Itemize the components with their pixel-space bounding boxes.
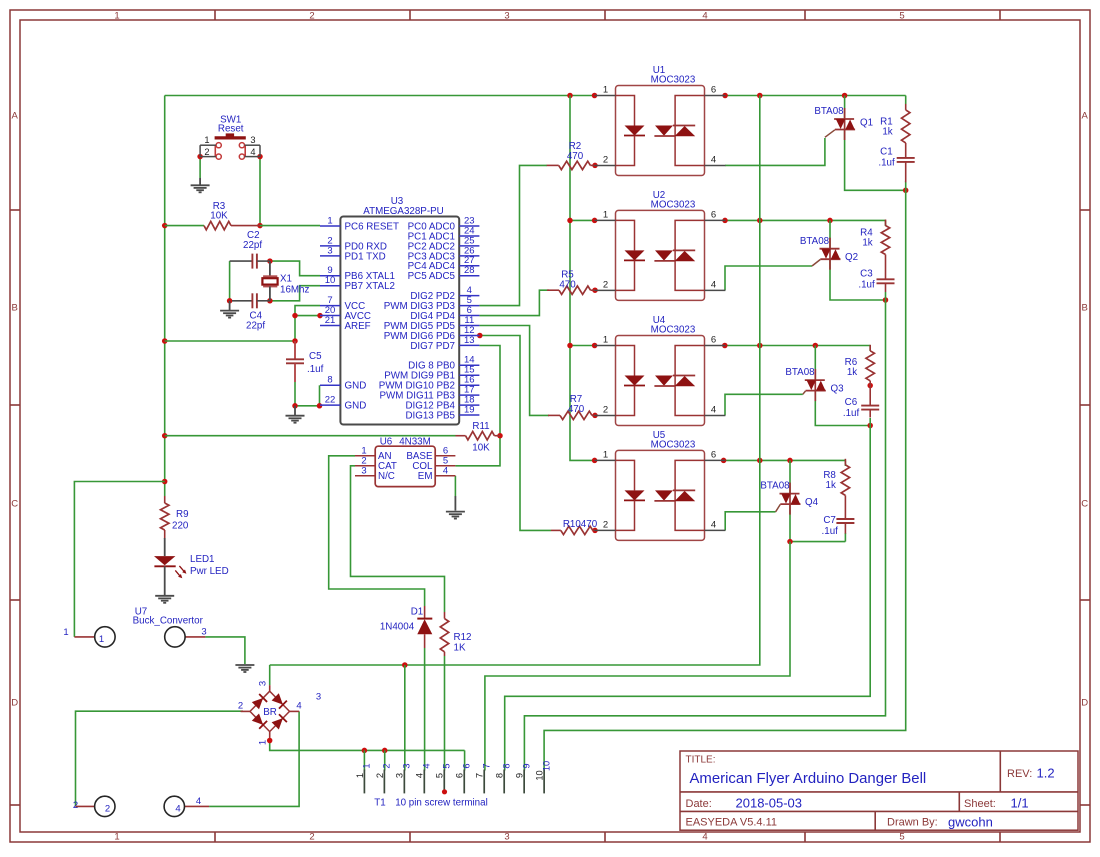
wire R12 to terminal 5 [444,656,446,771]
svg-text:16Mhz: 16Mhz [280,285,310,296]
svg-text:1k: 1k [847,367,857,378]
svg-text:1: 1 [114,11,119,22]
svg-text:1: 1 [603,449,608,460]
svg-text:3: 3 [361,465,366,476]
capacitor C7 .1uf [822,495,855,537]
svg-text:1k: 1k [826,480,836,491]
capacitor C5 .1uf [286,341,324,382]
resistor R4 1k [860,220,890,255]
svg-text:Reset: Reset [218,124,244,135]
wire R6C6 column [869,346,871,352]
svg-text:470: 470 [567,151,584,162]
svg-text:MOC3023: MOC3023 [651,200,696,211]
wire hot output 2 to terminal 9 [524,300,885,771]
wire opto anode bus [570,96,595,461]
svg-text:1/1: 1/1 [1011,795,1029,810]
svg-text:4: 4 [443,465,448,476]
wire U6 CAT to R12 [351,466,445,612]
svg-text:2: 2 [309,11,314,22]
svg-text:5: 5 [441,763,451,768]
wire hot output 1 to terminal 10 [544,190,906,770]
svg-text:3: 3 [327,245,332,256]
wire Q3 main path [814,346,816,381]
svg-text:2: 2 [204,147,209,157]
svg-text:6: 6 [461,763,471,768]
optocoupler U1 MOC3023 [595,65,726,175]
svg-text:3: 3 [201,627,206,638]
svg-text:2: 2 [382,763,392,768]
svg-text:1k: 1k [882,127,892,138]
svg-text:3: 3 [258,681,269,686]
resistor R10 470 [551,519,598,535]
svg-text:9: 9 [521,763,531,768]
svg-text:B: B [1082,303,1088,314]
svg-text:5: 5 [435,773,445,778]
svg-text:4: 4 [711,155,716,166]
svg-text:U6: U6 [380,436,393,447]
svg-text:2: 2 [238,701,243,712]
svg-text:PC6 RESET: PC6 RESET [345,221,399,232]
svg-text:4: 4 [175,804,180,815]
wire U4 pin6 rail [725,345,870,347]
svg-text:ATMEGA328P-PU: ATMEGA328P-PU [363,206,443,217]
wire U2 pin6 rail [725,219,886,221]
svg-text:4: 4 [702,11,707,22]
svg-text:13: 13 [464,335,475,346]
ground under C5 [286,406,305,423]
svg-text:1: 1 [603,85,608,96]
svg-text:2: 2 [603,405,608,416]
svg-text:3: 3 [316,692,321,703]
optocoupler U2 MOC3023 [595,190,726,300]
svg-text:LED1: LED1 [190,554,215,565]
wire XTAL2 net [270,286,320,301]
svg-text:220: 220 [172,521,189,532]
svg-text:22: 22 [325,395,336,406]
LED LED1 Pwr LED [154,538,229,596]
svg-text:10 pin screw terminal: 10 pin screw terminal [395,797,488,808]
svg-text:3: 3 [395,773,405,778]
ground under U7 pin3 [235,665,254,672]
svg-text:1: 1 [603,335,608,346]
optocoupler U4 MOC3023 [595,315,726,425]
wire bus to R11 [165,435,456,437]
triac Q2 BTA08 [800,236,858,270]
svg-text:5: 5 [899,832,904,843]
svg-text:2: 2 [309,832,314,843]
svg-text:21: 21 [325,315,336,326]
svg-text:D: D [11,698,18,709]
ground under LED1 [155,596,174,603]
wire U5 pin6 rail [724,459,846,461]
svg-text:American Flyer Arduino Danger: American Flyer Arduino Danger Bell [690,771,927,787]
wire DIG3 to R2 [479,165,547,305]
wire hot output 4 to terminal 7 [485,542,790,771]
wire U7 pin2 to bridge [76,711,244,806]
resistor R5 470 [547,270,595,295]
svg-text:10: 10 [325,275,336,286]
svg-text:6: 6 [455,773,465,778]
svg-text:.1uf: .1uf [843,408,860,419]
diode D1 1N4004 [380,606,432,648]
svg-text:1N4004: 1N4004 [380,622,415,633]
svg-text:C: C [11,499,18,510]
svg-text:3: 3 [504,832,509,843]
svg-text:BTA08: BTA08 [760,481,790,492]
svg-text:4: 4 [250,147,255,157]
wire R4C3 column [885,220,887,226]
svg-text:TITLE:: TITLE: [686,754,716,765]
svg-text:3: 3 [250,135,255,145]
svg-text:1: 1 [603,209,608,220]
wire R3 to U3 pin1 [260,225,320,227]
svg-text:2: 2 [603,279,608,290]
svg-text:DIG7 PD7: DIG7 PD7 [410,341,455,352]
wire left bus [164,96,166,497]
svg-text:10K: 10K [210,211,228,222]
wire C5 to GND pins [294,382,296,406]
svg-text:2: 2 [603,155,608,166]
resistor R12 1K [440,612,471,656]
svg-text:1: 1 [114,832,119,843]
svg-text:BTA08: BTA08 [785,367,815,378]
resistor R8 1k [823,459,849,496]
svg-text:DIG13 PB5: DIG13 PB5 [405,410,455,421]
svg-text:.1uf: .1uf [822,526,839,537]
capacitor C6 .1uf [843,381,879,419]
wire R8C7 column [844,460,846,466]
ground under C4 [220,301,239,318]
wire R1C1 column [905,96,907,105]
svg-text:6: 6 [711,335,716,346]
svg-text:EASYEDA V5.4.11: EASYEDA V5.4.11 [686,816,778,828]
svg-text:BTA08: BTA08 [814,106,844,117]
svg-text:GND: GND [345,381,367,392]
svg-text:N/C: N/C [378,471,395,482]
svg-text:7: 7 [475,773,485,778]
capacitor C2 22pf [230,230,270,269]
svg-text:MOC3023: MOC3023 [651,75,696,86]
svg-text:2: 2 [73,800,78,811]
terminal T1 10 pin screw terminal [355,761,552,809]
svg-text:A: A [12,111,19,122]
svg-text:8: 8 [495,773,505,778]
ground under SW1 [191,178,210,192]
wire DIG5 to R7 [479,326,549,416]
svg-text:PD1 TXD: PD1 TXD [345,251,386,262]
svg-text:1: 1 [99,634,104,645]
svg-text:R10470: R10470 [563,519,598,530]
wire U7 pin3 ground leg [205,637,245,664]
wire U6 AN to D1 [329,456,425,606]
svg-text:Q2: Q2 [845,252,858,263]
svg-text:1: 1 [204,135,209,145]
svg-text:7: 7 [481,763,491,768]
resistor R11 10K [456,421,501,454]
svg-text:5: 5 [899,11,904,22]
connector U7 Buck_Convertor [63,606,209,816]
wire U4 pin4 to Q3 gate [725,394,803,415]
wire U6 EM ground leg [454,476,456,496]
svg-text:T1: T1 [374,797,385,808]
svg-text:C3: C3 [860,268,873,279]
svg-text:Pwr LED: Pwr LED [190,566,229,577]
svg-text:8: 8 [327,375,332,386]
optocoupler U6 4N33M [355,436,455,486]
svg-text:R12: R12 [454,632,472,643]
svg-text:AREF: AREF [345,321,371,332]
wire U5 pin4 to Q4 gate [725,512,775,531]
svg-text:2018-05-03: 2018-05-03 [736,795,803,810]
svg-text:Q3: Q3 [830,383,844,394]
svg-text:PC5 ADC5: PC5 ADC5 [408,271,456,282]
svg-text:1: 1 [355,773,365,778]
wire SW1 ground leg [199,157,201,178]
capacitor C4 22pf [232,293,270,331]
wire U7 pin1 to bus [74,482,164,637]
svg-text:9: 9 [515,773,525,778]
svg-text:4: 4 [711,405,716,416]
svg-text:D: D [1081,698,1088,709]
svg-text:8: 8 [501,763,511,768]
wire U7 pin4 to bridge [209,711,299,806]
svg-text:Q4: Q4 [805,497,819,508]
svg-text:1K: 1K [454,643,466,654]
wire bridge pin3 up [269,665,271,685]
wire DIG7-R11-COL net [455,346,500,466]
wire XTAL1 net [270,261,320,276]
svg-text:C1: C1 [880,147,893,158]
svg-text:X1: X1 [280,274,292,285]
svg-text:1: 1 [362,763,372,768]
svg-text:2: 2 [603,519,608,530]
microcontroller U3 ATMEGA328P-PU [320,196,479,425]
svg-text:1: 1 [63,627,68,638]
bridge rectifier BR [238,681,302,745]
capacitor C1 .1uf [878,143,914,182]
wire AC line to bridge [270,96,760,666]
svg-text:470: 470 [559,280,576,291]
svg-text:4: 4 [296,701,301,712]
svg-text:R9: R9 [176,509,189,520]
svg-text:C5: C5 [309,351,322,362]
svg-text:470: 470 [568,404,585,415]
svg-text:.1uf: .1uf [858,279,875,290]
svg-text:6: 6 [711,209,716,220]
triac Q1 BTA08 [814,106,873,140]
svg-text:BR: BR [263,707,277,718]
svg-text:Drawn By:: Drawn By: [887,816,938,828]
svg-text:C6: C6 [845,397,858,408]
svg-text:4: 4 [422,763,432,768]
svg-text:REV:: REV: [1007,768,1032,780]
wire terminal 3 tap [404,665,406,771]
svg-text:A: A [1082,111,1089,122]
resistor R1 1k [880,104,910,143]
svg-text:Date:: Date: [686,798,712,810]
svg-text:gwcohn: gwcohn [948,814,993,829]
svg-text:1k: 1k [862,238,872,249]
svg-text:4N33M: 4N33M [399,436,431,447]
svg-text:PB7 XTAL2: PB7 XTAL2 [345,281,395,292]
svg-text:10K: 10K [472,443,490,454]
svg-text:D1: D1 [411,607,424,618]
optocoupler U5 MOC3023 [595,430,726,540]
svg-text:EM: EM [418,471,433,482]
wire Q4 main path [789,460,791,493]
svg-text:MOC3023: MOC3023 [651,440,696,451]
wire hot output 3 to terminal 8 [505,426,871,771]
svg-text:MOC3023: MOC3023 [651,325,696,336]
svg-text:.1uf: .1uf [878,158,895,169]
svg-text:4: 4 [415,773,425,778]
svg-text:GND: GND [345,401,367,412]
resistor R9 220 [161,496,189,539]
wire Q1 main path [844,96,846,120]
svg-text:2: 2 [105,804,110,815]
svg-text:6: 6 [711,449,716,460]
wire VCC-AVCC rail [165,306,320,341]
svg-text:28: 28 [464,265,475,276]
svg-text:3: 3 [402,763,412,768]
svg-text:6: 6 [711,85,716,96]
wire +5V top rail [165,95,595,97]
triac Q3 BTA08 [785,367,844,401]
svg-text:BTA08: BTA08 [800,236,830,247]
svg-text:2: 2 [375,773,385,778]
svg-text:C7: C7 [823,515,836,526]
wire Q2 main path [829,220,831,248]
capacitor C3 .1uf [858,255,894,293]
svg-text:1.2: 1.2 [1037,766,1055,781]
wire bridge pin1 to terminals 1 2 6 [270,741,465,751]
wire SW1 to R3 [259,157,261,226]
svg-text:1: 1 [258,740,269,745]
wire DIG4 to R5 [479,290,549,315]
svg-text:.1uf: .1uf [307,364,324,375]
svg-text:U3: U3 [391,196,404,207]
svg-text:4: 4 [711,279,716,290]
svg-text:19: 19 [464,404,475,415]
resistor R2 470 [547,141,595,170]
svg-text:22pf: 22pf [246,321,265,332]
svg-text:4: 4 [196,796,201,807]
switch SW1 [200,115,260,160]
svg-text:Sheet:: Sheet: [964,798,996,810]
svg-text:R11: R11 [472,421,489,432]
svg-text:10: 10 [541,761,551,771]
ground under U6 EM [446,496,465,519]
wire D1 to terminal 4 [424,648,426,771]
svg-text:4: 4 [711,519,716,530]
svg-text:4: 4 [702,832,707,843]
svg-text:C: C [1081,499,1088,510]
wire U2 pin4 to Q2 gate [725,266,812,290]
svg-text:Buck_Convertor: Buck_Convertor [133,615,204,626]
wire U1 pin6 rail [725,95,906,97]
crystal X1 16Mhz [262,261,309,301]
wire DIG6 to R10 [480,336,551,531]
svg-text:1: 1 [327,215,332,226]
svg-text:22pf: 22pf [243,240,262,251]
svg-text:Q1: Q1 [860,118,873,129]
svg-text:B: B [12,303,18,314]
resistor R3 10K [204,201,260,230]
svg-text:3: 3 [504,11,509,22]
resistor R7 470 [548,394,597,420]
resistor R6 1k [845,345,875,381]
wire U1 pin4 to Q1 gate [725,138,825,165]
triac Q4 BTA08 [760,481,818,515]
